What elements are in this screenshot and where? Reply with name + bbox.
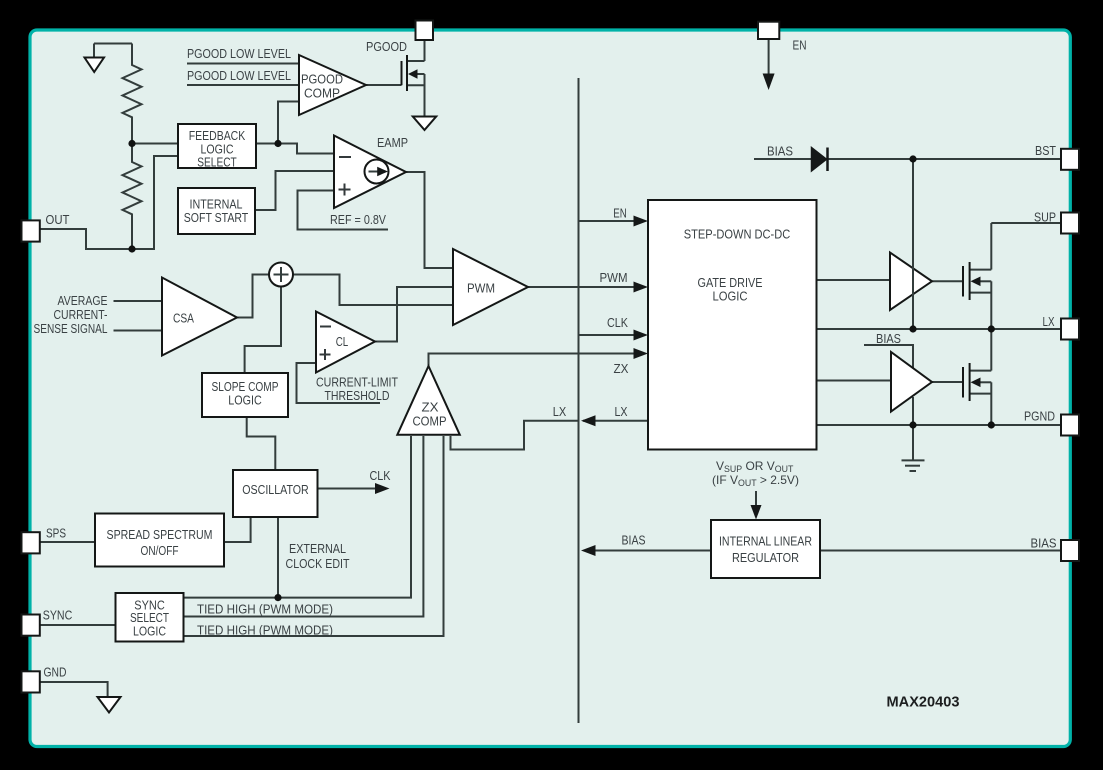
svg-text:COMP: COMP [413,414,447,429]
svg-text:OUT: OUT [46,212,70,227]
svg-text:CSA: CSA [173,311,194,326]
svg-text:CLK: CLK [370,468,391,483]
svg-text:PGND: PGND [1024,409,1055,424]
svg-text:LX: LX [553,404,567,419]
svg-text:PGOOD: PGOOD [301,72,343,87]
svg-text:LOGIC: LOGIC [713,289,748,304]
svg-text:LX: LX [1043,314,1055,329]
svg-text:EAMP: EAMP [377,135,408,150]
svg-text:GND: GND [44,665,67,680]
svg-text:THRESHOLD: THRESHOLD [325,388,390,403]
svg-text:LOGIC: LOGIC [228,393,262,408]
svg-text:COMP: COMP [304,86,340,101]
svg-text:REF = 0.8V: REF = 0.8V [330,212,386,227]
svg-text:CLK: CLK [607,315,628,330]
svg-text:STEP-DOWN DC-DC: STEP-DOWN DC-DC [684,227,791,242]
svg-text:PGOOD: PGOOD [366,39,407,54]
svg-text:SPREAD SPECTRUM: SPREAD SPECTRUM [107,527,213,542]
svg-text:PGOOD LOW LEVEL: PGOOD LOW LEVEL [187,46,291,61]
svg-text:PWM: PWM [600,270,628,285]
svg-text:SYNC: SYNC [43,608,73,623]
svg-text:EN: EN [613,206,627,221]
svg-text:CL: CL [336,334,349,349]
svg-text:CLOCK EDIT: CLOCK EDIT [286,556,350,571]
svg-text:MAX20403: MAX20403 [887,694,960,711]
svg-text:CURRENT-: CURRENT- [54,307,108,322]
svg-text:BIAS: BIAS [767,144,793,159]
svg-text:PGOOD LOW LEVEL: PGOOD LOW LEVEL [187,68,291,83]
svg-text:TIED HIGH (PWM MODE): TIED HIGH (PWM MODE) [197,602,333,617]
svg-text:ON/OFF: ON/OFF [141,543,179,558]
svg-text:SPS: SPS [46,526,66,541]
svg-text:OSCILLATOR: OSCILLATOR [242,482,309,497]
svg-text:TIED HIGH (PWM MODE): TIED HIGH (PWM MODE) [197,623,333,638]
svg-text:LOGIC: LOGIC [133,624,166,639]
svg-text:BIAS: BIAS [622,533,646,548]
svg-text:BST: BST [1035,143,1056,158]
svg-text:REGULATOR: REGULATOR [732,550,799,565]
svg-text:EXTERNAL: EXTERNAL [289,541,346,556]
svg-text:EN: EN [793,38,807,53]
svg-text:INTERNAL LINEAR: INTERNAL LINEAR [719,534,812,549]
svg-text:SENSE SIGNAL: SENSE SIGNAL [34,321,108,336]
svg-text:BIAS: BIAS [876,331,901,346]
svg-text:ZX: ZX [422,400,439,415]
svg-text:SUP: SUP [1034,210,1056,225]
svg-text:LX: LX [615,404,628,419]
svg-text:BIAS: BIAS [1031,536,1057,551]
svg-text:SELECT: SELECT [197,155,237,170]
svg-text:SOFT START: SOFT START [184,210,249,225]
svg-text:PWM: PWM [467,281,495,296]
svg-text:ZX: ZX [614,361,629,376]
svg-text:AVERAGE: AVERAGE [58,293,108,308]
